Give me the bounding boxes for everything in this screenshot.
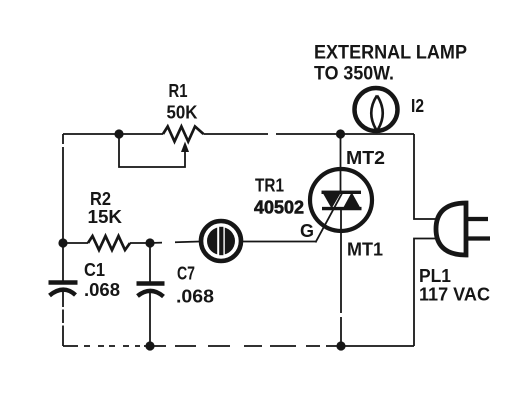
wire: gate diagonal bbox=[316, 193, 343, 243]
diac slot bbox=[217, 227, 225, 255]
svg-text:R1: R1 bbox=[169, 81, 188, 101]
scan fade gaps on bottom rail bbox=[61, 132, 343, 348]
wire: right rail upper bbox=[414, 134, 437, 219]
wire: top rail left segment bbox=[63, 133, 163, 135]
svg-text:.068: .068 bbox=[84, 280, 120, 300]
junction node R2/C7 bbox=[145, 238, 154, 247]
svg-text:.068: .068 bbox=[176, 287, 214, 307]
wire: MT2 lead bbox=[340, 134, 342, 192]
triac TR1 circle bbox=[310, 169, 372, 231]
svg-text:R2: R2 bbox=[90, 189, 111, 209]
triac right triangle bbox=[342, 192, 362, 210]
junction node C7/bottom rail bbox=[145, 341, 154, 350]
svg-text:TR1: TR1 bbox=[255, 176, 284, 196]
svg-text:TO 350W.: TO 350W. bbox=[314, 64, 394, 85]
capacitor C7 top plate bbox=[137, 281, 165, 285]
triac bottom bar bbox=[322, 207, 362, 210]
svg-text:PL1: PL1 bbox=[419, 266, 451, 286]
resistor R2 zigzag bbox=[88, 236, 130, 250]
capacitor C7 curved plate bbox=[138, 291, 164, 297]
svg-text:EXTERNAL LAMP: EXTERNAL LAMP bbox=[314, 43, 467, 64]
svg-text:15K: 15K bbox=[88, 207, 123, 227]
wire: C7 branch upper bbox=[149, 243, 151, 283]
diac D1 outer ring bbox=[201, 221, 241, 261]
svg-text:117 VAC: 117 VAC bbox=[419, 285, 490, 305]
junction node MT1/bottom rail bbox=[336, 341, 345, 350]
wire: MT1 lead bbox=[340, 209, 342, 346]
svg-text:G: G bbox=[300, 221, 314, 241]
wire: C7 branch lower bbox=[149, 291, 151, 346]
junction node left rail/R2 bbox=[58, 238, 67, 247]
plug PL1 upper prong bbox=[466, 217, 488, 221]
triac top bar bbox=[322, 191, 362, 194]
svg-text:C7: C7 bbox=[177, 264, 195, 284]
wire: right rail lower with plug stub bbox=[414, 239, 438, 347]
triac left triangle bbox=[322, 191, 343, 209]
capacitor C1 top plate bbox=[49, 280, 78, 284]
wire: diac to gate bbox=[243, 241, 316, 243]
junction node MT2/top rail bbox=[336, 129, 345, 138]
lamp I2 circle bbox=[355, 88, 398, 131]
svg-text:40502: 40502 bbox=[254, 198, 304, 218]
R1 wiper arm wire bbox=[119, 134, 185, 167]
svg-text:I2: I2 bbox=[411, 96, 424, 116]
potentiometer R1 zigzag bbox=[163, 127, 204, 142]
wire: node to diac bbox=[150, 242, 200, 244]
junction node R1 tap bbox=[114, 129, 123, 138]
wire: top rail right segment bbox=[204, 133, 415, 135]
svg-text:MT1: MT1 bbox=[347, 240, 383, 260]
svg-text:C1: C1 bbox=[84, 260, 105, 280]
svg-text:50K: 50K bbox=[167, 103, 198, 123]
R1 wiper arrowhead bbox=[181, 142, 189, 153]
wire: R2 row from left rail bbox=[63, 242, 88, 244]
lamp I2 filament vesica bbox=[371, 96, 383, 132]
svg-text:MT2: MT2 bbox=[346, 148, 385, 168]
wire: bottom rail bbox=[63, 345, 414, 347]
wire: left rail upper bbox=[62, 134, 64, 281]
wire: R2 to C7 node bbox=[130, 242, 150, 244]
diac center bar bbox=[219, 227, 223, 255]
diac inner disc bbox=[207, 227, 235, 255]
plug PL1 lower prong bbox=[466, 236, 490, 240]
capacitor C1 curved plate bbox=[50, 290, 76, 296]
wire: left rail lower bbox=[62, 290, 64, 346]
plug PL1 body bbox=[436, 203, 466, 255]
